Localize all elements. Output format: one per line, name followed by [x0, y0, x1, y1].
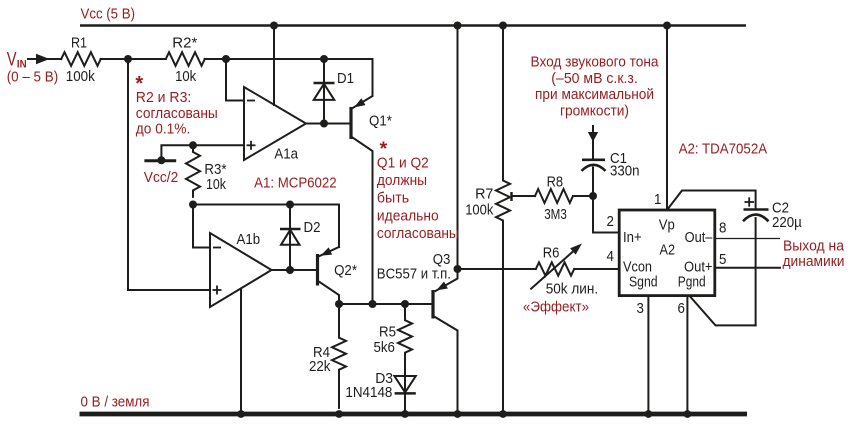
- diode D2: [280, 205, 301, 271]
- node R7 top rail: [499, 22, 507, 30]
- svg-text:Pgnd: Pgnd: [678, 274, 706, 291]
- svg-text:Vcc (5 В): Vcc (5 В): [81, 6, 136, 23]
- red note audio input: [531, 54, 660, 120]
- node junction R5 top: [401, 300, 409, 308]
- svg-text:R6: R6: [543, 245, 560, 262]
- diode D3: [394, 360, 415, 415]
- svg-text:22k: 22k: [309, 358, 331, 375]
- D2 label: [304, 219, 321, 236]
- svg-text:Q1*: Q1*: [369, 113, 392, 130]
- svg-text:(0 – 5 В): (0 – 5 В): [7, 69, 59, 86]
- svg-text:Выход на: Выход на: [783, 237, 845, 254]
- audio input arrow: [588, 126, 598, 159]
- svg-text:при максимальной: при максимальной: [535, 86, 654, 103]
- transistor Q2: [318, 247, 340, 304]
- pin number labels: [607, 191, 727, 317]
- potentiometer R7 body: [496, 26, 510, 415]
- variable resistor R6: [458, 244, 620, 289]
- svg-text:динамики: динамики: [783, 253, 845, 270]
- svg-text:R7: R7: [475, 185, 493, 202]
- node pin6 ground: [684, 410, 692, 418]
- svg-text:Вход звукового тона: Вход звукового тона: [531, 54, 660, 71]
- svg-text:R8: R8: [547, 174, 564, 191]
- node junction R1/R2/A1b: [124, 55, 132, 63]
- D1 label: [337, 70, 354, 87]
- node pin1 rail junction: [663, 22, 671, 30]
- node A1a Vcc on rail: [270, 22, 278, 30]
- svg-text:6: 6: [678, 300, 685, 317]
- svg-text:согласованы: согласованы: [377, 225, 459, 242]
- node R7 ground: [499, 410, 507, 418]
- wire to A1a inverting input: [226, 59, 244, 101]
- R5 value labels: [374, 324, 397, 357]
- R6 red label: [523, 299, 589, 316]
- capacitor C2: [743, 210, 769, 326]
- Vcc/2 bias bar: [144, 159, 176, 162]
- svg-text:5k6: 5k6: [374, 339, 395, 356]
- A1 part number label: [254, 175, 337, 192]
- svg-text:0 В / земля: 0 В / земля: [81, 393, 150, 410]
- node Q3 emitter rail junction: [454, 22, 462, 30]
- svg-text:Vp: Vp: [659, 217, 675, 234]
- A2 pin name labels: [623, 217, 713, 291]
- ground rail (bottom): [80, 412, 748, 417]
- svg-text:50k лин.: 50k лин.: [546, 281, 598, 298]
- svg-text:R2 и R3:: R2 и R3:: [136, 89, 192, 106]
- C2 value labels: [772, 200, 802, 232]
- node Vcc/2 junction: [157, 156, 165, 164]
- resistor R1: [61, 52, 101, 66]
- R2 value labels: [172, 34, 197, 85]
- svg-text:согласованы: согласованы: [136, 105, 218, 122]
- svg-text:Q2*: Q2*: [334, 262, 357, 279]
- svg-text:1: 1: [654, 191, 661, 208]
- D3 value labels: [345, 370, 393, 401]
- output label: [783, 237, 845, 270]
- wire A1a Vcc pin: [273, 26, 275, 106]
- Vcc power rail (top): [80, 24, 746, 26]
- A1b label: [237, 231, 261, 248]
- Q3 type label: [377, 265, 451, 282]
- diode D1: [314, 59, 335, 124]
- R6 value labels: [543, 245, 598, 298]
- Q3 label: [433, 251, 451, 268]
- svg-text:In+: In+: [623, 229, 642, 246]
- wire R3 bottom to Q2 emitter: [193, 205, 339, 248]
- node D3 ground: [401, 410, 409, 418]
- svg-text:должны: должны: [377, 172, 427, 189]
- wire pin 6 Pgnd to ground: [686, 296, 688, 414]
- node junction R3 bottom: [189, 201, 197, 209]
- node junction C1 / R8 / In+: [589, 192, 597, 200]
- svg-text:D1: D1: [337, 70, 354, 87]
- node junction D2 bottom: [286, 266, 294, 274]
- wire Vcc/2 to A1a + input: [161, 145, 244, 160]
- svg-text:100k: 100k: [465, 201, 494, 218]
- Q2 label: [334, 262, 357, 279]
- wire pin 5 Out+ output: [715, 267, 780, 269]
- input arrow: [28, 54, 50, 64]
- svg-text:«Эффект»: «Эффект»: [523, 299, 589, 316]
- C2 plus sign: [745, 197, 755, 206]
- svg-text:до 0.1%.: до 0.1%.: [136, 121, 191, 138]
- A2 part number label: [679, 141, 768, 158]
- wire A1b output to Q2 base: [272, 269, 317, 271]
- node Q3 emitter / R6: [454, 265, 462, 273]
- resistor R4: [332, 304, 346, 408]
- node junction D1 bottom: [320, 120, 328, 128]
- R3 value labels: [204, 161, 226, 193]
- wire pin 3 Sgnd to ground: [647, 296, 649, 414]
- svg-text:330n: 330n: [610, 163, 640, 180]
- svg-text:быть: быть: [377, 190, 409, 207]
- resistor R5: [398, 304, 412, 370]
- red note R2/R3 asterisk: [135, 73, 143, 95]
- red note Q1/Q2 matched: [377, 154, 459, 242]
- wire R1 to R2: [101, 58, 166, 60]
- svg-text:A1a: A1a: [274, 145, 298, 162]
- svg-text:Sgnd: Sgnd: [629, 274, 658, 291]
- svg-text:Out–: Out–: [685, 229, 713, 246]
- svg-text:8: 8: [719, 220, 726, 237]
- node VIN input label: [7, 48, 59, 85]
- svg-text:Q1 и Q2: Q1 и Q2: [377, 154, 429, 171]
- wire A1a output to Q1 base: [306, 123, 350, 125]
- IC A2 box: [619, 210, 715, 296]
- op-amp A1b: [210, 233, 272, 307]
- node junction Q2 collector / R4: [335, 300, 343, 308]
- svg-text:2: 2: [607, 213, 614, 230]
- node junction D1 top: [320, 55, 328, 63]
- svg-text:V: V: [7, 48, 17, 70]
- op-amp A1a: [244, 87, 306, 160]
- Q1 label: [369, 113, 392, 130]
- svg-text:A1b: A1b: [237, 231, 261, 248]
- transistor Q1: [351, 59, 373, 304]
- C1 value labels: [610, 150, 640, 180]
- svg-text:4: 4: [607, 248, 614, 265]
- node junction D2 top: [286, 201, 294, 209]
- resistor R8: [535, 189, 573, 203]
- svg-text:10k: 10k: [175, 68, 196, 85]
- Vcc/2 label: [144, 169, 179, 186]
- svg-text:10k: 10k: [206, 176, 226, 193]
- node R4 ground: [335, 410, 343, 418]
- resistor R2: [166, 52, 205, 66]
- svg-text:A1: MCP6022: A1: MCP6022: [254, 175, 337, 192]
- svg-text:220µ: 220µ: [772, 214, 802, 231]
- node Q3 collector ground: [454, 410, 462, 418]
- wire VIN node down to A1b + input: [128, 59, 210, 290]
- node A1b ground on rail: [237, 410, 245, 418]
- svg-text:R2*: R2*: [172, 34, 197, 51]
- svg-text:идеально: идеально: [377, 207, 439, 224]
- wire pin1 to C2 plus: [667, 191, 756, 211]
- wire Vcc to Q3 emitter node: [457, 26, 459, 270]
- svg-text:BC557 и т.п.: BC557 и т.п.: [377, 265, 451, 282]
- ground rail label: [81, 393, 150, 410]
- svg-text:1N4148: 1N4148: [345, 384, 392, 401]
- wire collector bus to Q3 base: [339, 303, 432, 305]
- R1 value labels: [66, 34, 95, 85]
- R8 value labels: [544, 174, 567, 223]
- wire C1 node to pin 2: [593, 196, 619, 233]
- svg-text:A2: TDA7052A: A2: TDA7052A: [679, 141, 768, 158]
- svg-text:громкости): громкости): [560, 102, 629, 119]
- svg-text:Vcc/2: Vcc/2: [144, 169, 179, 186]
- red note R2/R3 matched: [136, 89, 218, 138]
- node pin3 ground: [645, 410, 653, 418]
- wire R3 bottom to A1b inverting input: [193, 205, 210, 248]
- node junction Q1 collector: [369, 300, 377, 308]
- wire A1b ground pin: [240, 289, 242, 415]
- R7 value labels: [465, 185, 494, 218]
- R4 value labels: [309, 344, 331, 375]
- resistor R3: [186, 145, 200, 197]
- Vcc rail label: [81, 6, 136, 23]
- svg-text:(–50 мВ с.к.з.: (–50 мВ с.к.з.: [551, 70, 638, 87]
- wire pin 1 Vp to Vcc rail: [666, 26, 668, 211]
- wire pin 8 Out- output: [715, 238, 780, 240]
- svg-text:R1: R1: [71, 34, 87, 51]
- node junction R3 top: [189, 141, 197, 149]
- capacitor C1: [582, 160, 606, 196]
- svg-text:5: 5: [719, 251, 726, 268]
- wire R8 to C1 node: [573, 195, 593, 197]
- R7 wiper: [512, 192, 536, 201]
- transistor Q3: [433, 269, 458, 414]
- A1a label: [274, 145, 298, 162]
- wire R2 to Q1 emitter corner: [205, 58, 373, 60]
- svg-text:R5: R5: [379, 324, 396, 341]
- svg-text:3M3: 3M3: [544, 206, 567, 223]
- svg-text:100k: 100k: [66, 68, 95, 85]
- svg-text:D2: D2: [304, 219, 321, 236]
- svg-text:A2: A2: [660, 241, 676, 258]
- red note Q1/Q2 asterisk: [380, 138, 388, 160]
- node junction R2 / A1a inverting input: [222, 55, 230, 63]
- wire VIN to R1: [47, 58, 61, 60]
- svg-text:3: 3: [637, 300, 644, 317]
- wire C2 minus to Pgnd: [690, 296, 756, 326]
